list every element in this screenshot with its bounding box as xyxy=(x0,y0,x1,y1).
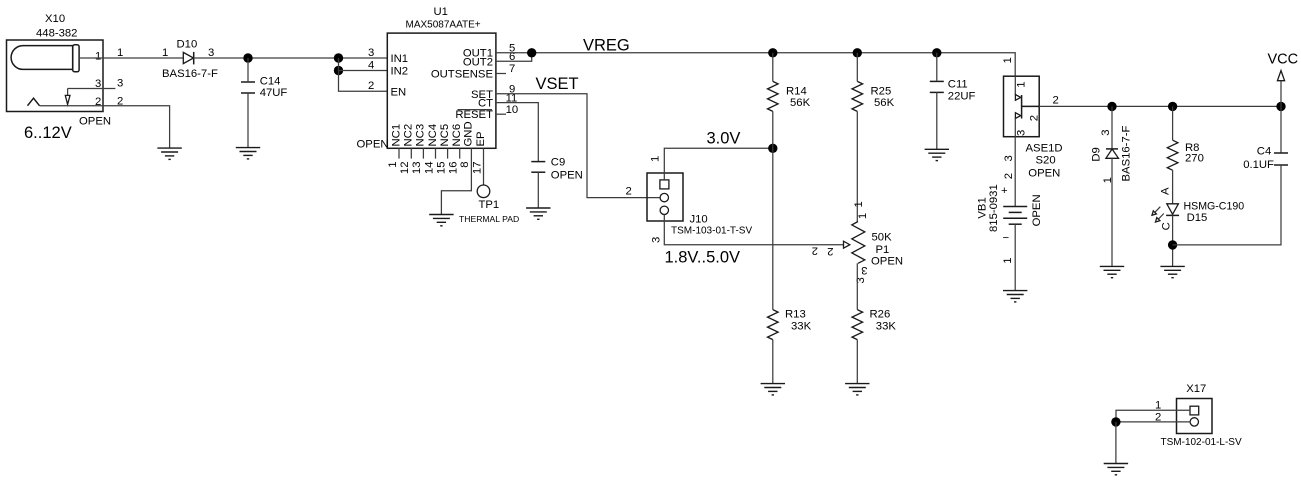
svg-text:J10: J10 xyxy=(690,213,708,225)
svg-text:BAS16-7-F: BAS16-7-F xyxy=(162,68,218,80)
svg-text:X17: X17 xyxy=(1186,383,1206,395)
svg-text:1: 1 xyxy=(387,162,399,168)
wire R13 to ground xyxy=(772,340,774,384)
ground (U1 GND) xyxy=(429,215,453,226)
wire to IN2 and EN xyxy=(339,58,388,91)
node R14 tap xyxy=(768,48,777,57)
svg-text:VREG: VREG xyxy=(583,37,630,55)
svg-text:17: 17 xyxy=(471,162,483,175)
svg-text:NC2: NC2 xyxy=(403,124,415,147)
svg-text:14: 14 xyxy=(423,162,435,175)
svg-text:1: 1 xyxy=(162,47,168,59)
P1 wiper arrow xyxy=(844,241,850,248)
battery VB1 xyxy=(1003,137,1027,291)
svg-text:−: − xyxy=(1003,233,1010,245)
resistor R14 xyxy=(772,53,774,82)
svg-text:1: 1 xyxy=(853,201,865,207)
svg-text:1: 1 xyxy=(857,213,869,219)
resistor R8 xyxy=(1172,106,1174,140)
connector X17 body xyxy=(1177,399,1213,434)
svg-text:15: 15 xyxy=(435,162,447,175)
svg-text:56K: 56K xyxy=(790,97,811,109)
wire J10 pin3 to P1 wiper xyxy=(664,215,843,245)
resistor R25 xyxy=(856,53,858,82)
svg-text:1: 1 xyxy=(95,51,101,63)
connector X10 body xyxy=(7,40,104,112)
diode D10 xyxy=(183,52,193,65)
svg-text:OPEN: OPEN xyxy=(871,255,903,267)
wire X17 pin1 xyxy=(1116,410,1190,422)
svg-text:TSM-102-01-L-SV: TSM-102-01-L-SV xyxy=(1161,437,1242,448)
node X17 junction xyxy=(1111,417,1120,426)
svg-text:TSM-103-01-T-SV: TSM-103-01-T-SV xyxy=(671,225,752,236)
svg-text:4: 4 xyxy=(368,59,374,71)
op-amp U1 body xyxy=(387,33,496,148)
svg-text:C4: C4 xyxy=(1257,146,1271,158)
wire U1 GND to ground xyxy=(441,148,471,214)
node LED bottom junction xyxy=(1168,240,1177,249)
node R8 tap xyxy=(1168,102,1177,111)
X10 pin3 stub xyxy=(68,88,116,90)
svg-text:R14: R14 xyxy=(786,86,807,98)
wire R25 to P1 xyxy=(856,111,858,221)
svg-text:VSET: VSET xyxy=(536,75,579,93)
wire X17 to ground xyxy=(1115,422,1117,464)
wire ASE1D pin2 VCC rail xyxy=(1039,105,1281,107)
svg-text:2: 2 xyxy=(626,186,632,198)
svg-text:D9: D9 xyxy=(1090,147,1102,161)
svg-text:1: 1 xyxy=(1102,177,1114,183)
svg-text:1.8V..5.0V: 1.8V..5.0V xyxy=(665,249,741,267)
svg-text:OPEN: OPEN xyxy=(357,138,389,150)
svg-text:NC1: NC1 xyxy=(390,124,402,147)
testpoint TP1 xyxy=(477,185,490,198)
power VCC symbol xyxy=(1277,71,1284,81)
svg-text:2: 2 xyxy=(1029,115,1041,121)
svg-text:13: 13 xyxy=(411,162,423,175)
svg-text:OUT2: OUT2 xyxy=(463,56,493,68)
svg-text:3.0V: 3.0V xyxy=(707,129,741,147)
wire D10 to U1 IN1 xyxy=(194,57,388,59)
svg-text:IN2: IN2 xyxy=(391,66,409,78)
svg-text:D10: D10 xyxy=(177,39,198,51)
svg-text:22UF: 22UF xyxy=(948,91,976,103)
svg-text:OPEN: OPEN xyxy=(79,115,111,127)
wire J10 pin1 to 3.0V node xyxy=(664,148,773,180)
svg-text:VCC: VCC xyxy=(1268,51,1299,67)
resistor R26 xyxy=(852,310,863,340)
svg-text:1: 1 xyxy=(1015,82,1027,88)
wire R14 to R13 xyxy=(772,111,774,309)
wire X17 pin2 xyxy=(1116,421,1191,423)
svg-text:1: 1 xyxy=(1002,258,1014,264)
X10 switch lever xyxy=(28,98,40,106)
svg-text:0.1UF: 0.1UF xyxy=(1243,159,1274,171)
ground (R26) xyxy=(845,384,869,395)
ground (C14) xyxy=(236,148,260,159)
svg-text:NC3: NC3 xyxy=(415,124,427,147)
svg-text:2: 2 xyxy=(827,245,833,257)
ground (VB1) xyxy=(1003,291,1027,302)
wire U1 OUT2 up to rail xyxy=(496,53,532,62)
svg-text:U1: U1 xyxy=(434,6,448,18)
svg-text:D15: D15 xyxy=(1187,212,1208,224)
svg-text:2: 2 xyxy=(1053,95,1059,107)
svg-text:16: 16 xyxy=(448,162,460,175)
svg-text:C9: C9 xyxy=(551,156,565,168)
svg-text:2: 2 xyxy=(812,245,818,257)
svg-text:12: 12 xyxy=(399,162,411,175)
svg-text:270: 270 xyxy=(1185,153,1204,165)
svg-text:56K: 56K xyxy=(874,97,895,109)
LED D15 xyxy=(1152,204,1179,267)
ground (C9) xyxy=(526,208,550,219)
ground (D15) xyxy=(1160,266,1184,277)
node C14 tap xyxy=(243,53,252,62)
U1 RESET stub xyxy=(496,113,506,115)
ground (X10 pin2) xyxy=(157,148,181,159)
svg-text:NC6: NC6 xyxy=(451,124,463,147)
svg-text:815-0931: 815-0931 xyxy=(988,184,1000,232)
svg-text:7: 7 xyxy=(509,63,515,75)
svg-text:3: 3 xyxy=(117,78,123,90)
potentiometer P1 xyxy=(852,222,865,264)
svg-text:448-382: 448-382 xyxy=(36,27,77,39)
svg-text:NC5: NC5 xyxy=(439,124,451,147)
svg-text:33K: 33K xyxy=(876,321,897,333)
dual diode ASE1D body xyxy=(1004,76,1040,137)
svg-text:OPEN: OPEN xyxy=(1028,167,1060,179)
ground (R13) xyxy=(761,384,785,395)
svg-text:BAS16-7-F: BAS16-7-F xyxy=(1121,126,1133,182)
svg-text:A: A xyxy=(1159,187,1171,195)
node 3.0V junction xyxy=(768,144,777,153)
svg-text:1: 1 xyxy=(1002,57,1014,63)
node VCC/C4 tap xyxy=(1276,102,1285,111)
svg-text:50K: 50K xyxy=(872,232,893,244)
svg-text:THERMAL PAD: THERMAL PAD xyxy=(459,214,519,224)
svg-text:C: C xyxy=(1160,222,1172,230)
svg-text:3: 3 xyxy=(368,47,374,59)
wire P1 to R26 xyxy=(856,263,858,309)
svg-text:2: 2 xyxy=(368,80,374,92)
svg-text:10: 10 xyxy=(506,104,519,116)
svg-text:X10: X10 xyxy=(45,13,65,25)
svg-text:3: 3 xyxy=(1003,155,1015,161)
svg-text:2: 2 xyxy=(1003,173,1015,179)
X10 pin3 internal arrow xyxy=(67,89,69,96)
svg-text:6..12V: 6..12V xyxy=(24,124,72,142)
capacitor C14 xyxy=(241,58,255,148)
svg-text:47UF: 47UF xyxy=(260,87,288,99)
svg-text:1: 1 xyxy=(650,156,662,162)
svg-text:S20: S20 xyxy=(1036,155,1056,167)
svg-text:R13: R13 xyxy=(785,309,806,321)
svg-text:3: 3 xyxy=(651,237,663,243)
svg-text:MAX5087AATE+: MAX5087AATE+ xyxy=(406,19,481,30)
svg-text:8: 8 xyxy=(459,162,471,168)
svg-text:VB1: VB1 xyxy=(977,197,989,218)
svg-text:OPEN: OPEN xyxy=(1031,194,1043,226)
svg-text:P1: P1 xyxy=(876,244,890,256)
svg-text:+: + xyxy=(1001,185,1008,197)
wire U1 EP to TP1 xyxy=(483,148,485,185)
svg-text:33K: 33K xyxy=(791,321,812,333)
svg-text:OUTSENSE: OUTSENSE xyxy=(431,69,494,81)
svg-text:C14: C14 xyxy=(260,75,281,87)
svg-text:CT: CT xyxy=(478,98,493,110)
svg-text:NC4: NC4 xyxy=(427,124,439,147)
svg-text:HSMG-C190: HSMG-C190 xyxy=(1184,201,1245,213)
wire R8 to D15 xyxy=(1172,170,1174,204)
node R25 tap xyxy=(853,48,862,57)
ground (D9) xyxy=(1100,266,1124,277)
resistor R13 xyxy=(768,310,779,340)
diode D9 xyxy=(1106,106,1119,266)
svg-text:EP: EP xyxy=(475,131,487,146)
node D9 tap xyxy=(1107,102,1116,111)
U1 OUTSENSE stub xyxy=(496,73,506,75)
connector J10 body xyxy=(647,173,683,221)
wire U1 OUT1 VREG rail xyxy=(496,53,1015,76)
capacitor C11 xyxy=(930,53,944,150)
ground (X17) xyxy=(1104,464,1128,475)
svg-text:3: 3 xyxy=(1016,130,1028,136)
svg-text:R26: R26 xyxy=(870,309,891,321)
svg-text:IN1: IN1 xyxy=(391,53,409,65)
svg-text:3: 3 xyxy=(861,264,867,276)
capacitor C4 xyxy=(1173,106,1288,245)
svg-text:OPEN: OPEN xyxy=(551,170,583,182)
svg-text:EN: EN xyxy=(391,86,407,98)
wire U1 SET to J10 pin2 xyxy=(496,94,660,198)
node C11 tap xyxy=(932,48,941,57)
node OUT junction xyxy=(527,48,536,57)
capacitor C9 xyxy=(531,162,545,208)
svg-text:C11: C11 xyxy=(948,79,968,91)
wire X10 pin2 to ground xyxy=(40,106,170,148)
ground (C11) xyxy=(925,149,949,160)
svg-text:R25: R25 xyxy=(871,86,892,98)
wire U1 CT to C9 xyxy=(496,103,538,162)
svg-text:TP1: TP1 xyxy=(479,199,500,211)
svg-text:3: 3 xyxy=(1100,130,1112,136)
wire X10 pin1 to D10 xyxy=(79,57,183,59)
wire R26 to ground xyxy=(856,340,858,384)
svg-text:GND: GND xyxy=(463,121,475,146)
node IN1 tap xyxy=(334,53,343,62)
svg-text:ASE1D: ASE1D xyxy=(1026,143,1063,155)
node IN2 tap xyxy=(334,66,343,75)
svg-text:RESET: RESET xyxy=(455,109,493,121)
